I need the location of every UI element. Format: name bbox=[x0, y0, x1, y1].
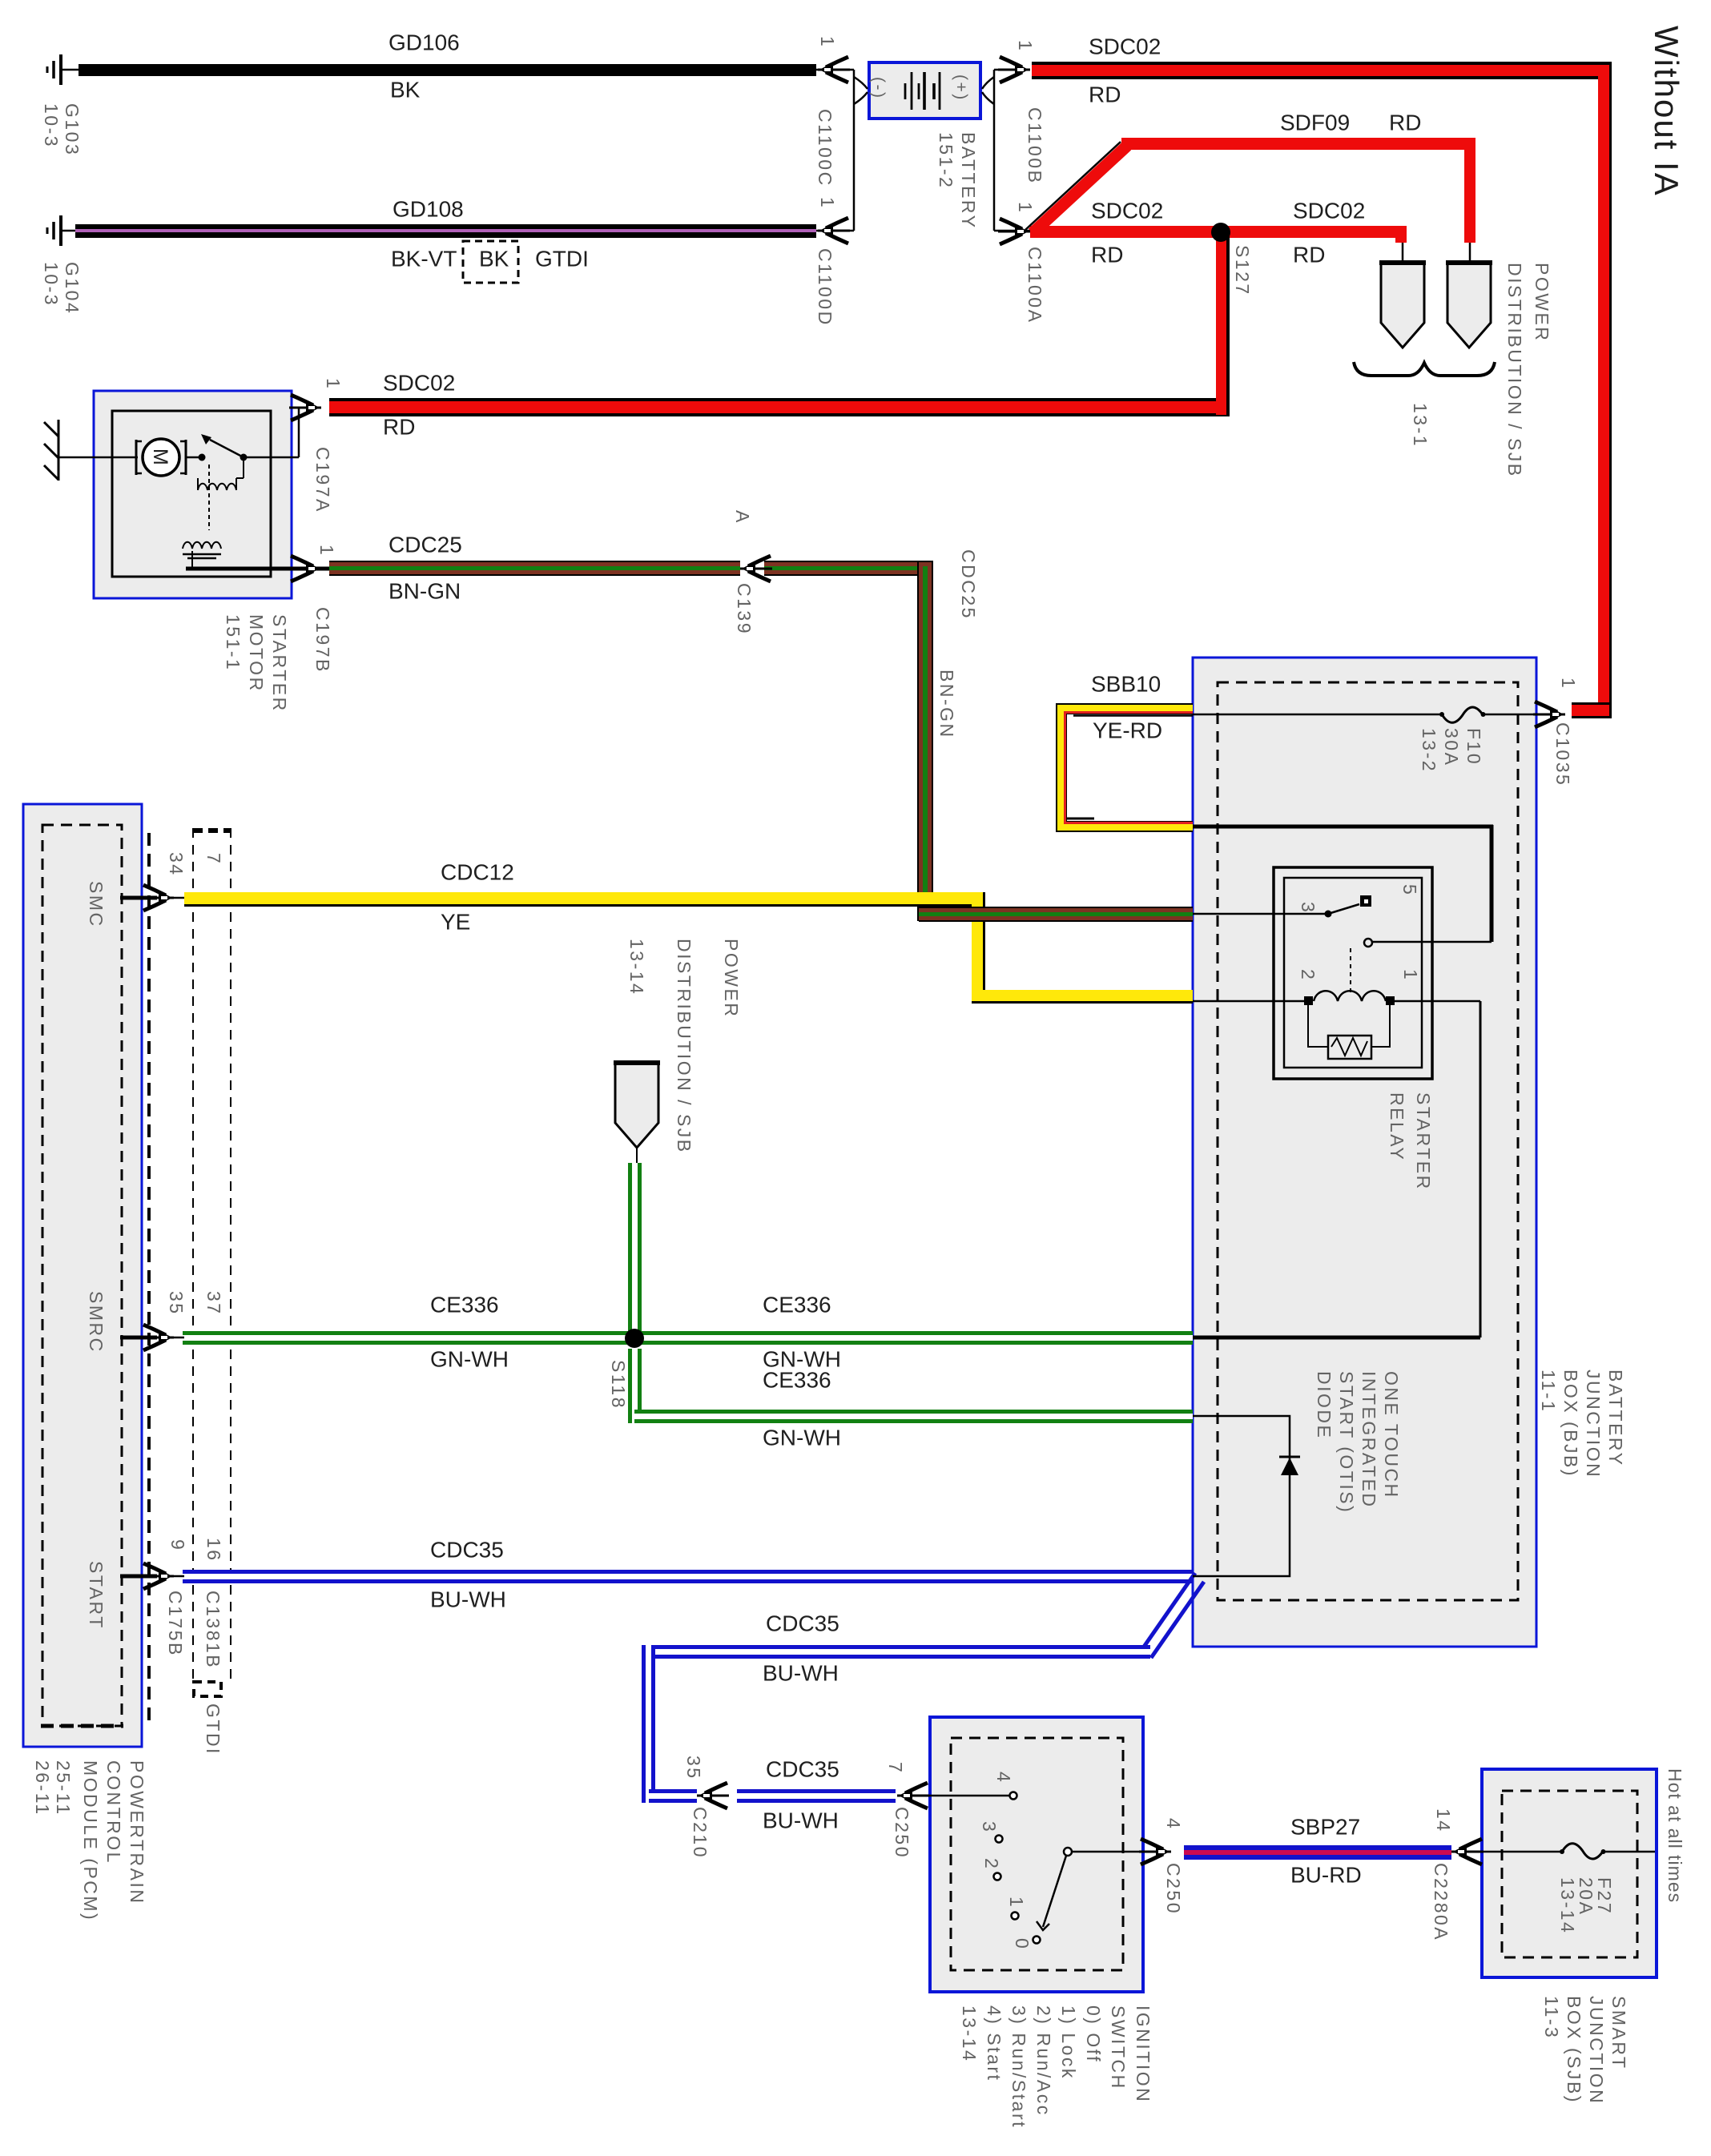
svg-text:CDC12: CDC12 bbox=[441, 859, 514, 884]
svg-text:1: 1 bbox=[1400, 969, 1421, 981]
svg-text:RD: RD bbox=[1091, 242, 1123, 267]
svg-text:CDC35: CDC35 bbox=[766, 1611, 839, 1635]
svg-text:BK: BK bbox=[479, 246, 509, 271]
svg-text:BK-VT: BK-VT bbox=[391, 246, 457, 271]
svg-text:BATTERY: BATTERY bbox=[958, 132, 979, 229]
svg-text:POWERTRAIN: POWERTRAIN bbox=[127, 1760, 147, 1905]
svg-text:2: 2 bbox=[1298, 969, 1318, 981]
svg-text:26-11: 26-11 bbox=[32, 1760, 53, 1816]
svg-text:1: 1 bbox=[1015, 40, 1036, 52]
svg-text:DISTRIBUTION / SJB: DISTRIBUTION / SJB bbox=[1504, 263, 1525, 478]
svg-text:C197B: C197B bbox=[312, 607, 333, 674]
svg-text:SBP27: SBP27 bbox=[1290, 1814, 1360, 1839]
svg-text:SBB10: SBB10 bbox=[1091, 671, 1161, 696]
svg-text:JUNCTION: JUNCTION bbox=[1583, 1370, 1604, 1478]
svg-text:CDC25: CDC25 bbox=[958, 549, 979, 620]
svg-text:16: 16 bbox=[203, 1538, 224, 1563]
svg-text:INTEGRATED: INTEGRATED bbox=[1359, 1371, 1379, 1509]
svg-text:BU-RD: BU-RD bbox=[1290, 1862, 1362, 1887]
svg-text:ONE TOUCH: ONE TOUCH bbox=[1381, 1371, 1402, 1499]
svg-text:3) Run/Start: 3) Run/Start bbox=[1008, 2005, 1029, 2129]
svg-text:BN-GN: BN-GN bbox=[936, 670, 957, 739]
svg-text:C197A: C197A bbox=[312, 447, 333, 513]
svg-text:POWER: POWER bbox=[721, 939, 742, 1018]
svg-text:4) Start: 4) Start bbox=[984, 2005, 1004, 2082]
svg-text:4: 4 bbox=[1163, 1818, 1184, 1830]
svg-text:DIODE: DIODE bbox=[1314, 1371, 1335, 1439]
svg-text:1: 1 bbox=[1558, 678, 1579, 690]
svg-text:11-1: 11-1 bbox=[1538, 1370, 1559, 1413]
svg-text:STARTER: STARTER bbox=[1413, 1092, 1434, 1191]
svg-text:A: A bbox=[732, 510, 753, 525]
svg-text:11-3: 11-3 bbox=[1541, 1996, 1562, 2039]
svg-text:C210: C210 bbox=[690, 1807, 711, 1859]
svg-text:CE336: CE336 bbox=[763, 1367, 831, 1392]
svg-text:G104: G104 bbox=[62, 262, 83, 315]
svg-text:RD: RD bbox=[1089, 82, 1121, 107]
svg-text:C1381B: C1381B bbox=[203, 1591, 223, 1669]
svg-text:13-14: 13-14 bbox=[1557, 1877, 1578, 1934]
svg-text:SMART: SMART bbox=[1608, 1996, 1629, 2070]
svg-text:1: 1 bbox=[1006, 1897, 1027, 1909]
svg-text:7: 7 bbox=[885, 1762, 906, 1774]
svg-text:MOTOR: MOTOR bbox=[246, 614, 267, 693]
svg-text:START (OTIS): START (OTIS) bbox=[1336, 1371, 1357, 1514]
svg-text:0) Off: 0) Off bbox=[1083, 2005, 1104, 2063]
svg-text:10-3: 10-3 bbox=[41, 262, 62, 307]
svg-text:S127: S127 bbox=[1232, 245, 1253, 296]
svg-text:151-1: 151-1 bbox=[223, 614, 244, 671]
svg-text:CONTROL: CONTROL bbox=[103, 1760, 124, 1864]
svg-text:BATTERY: BATTERY bbox=[1605, 1370, 1626, 1466]
svg-text:1: 1 bbox=[817, 197, 838, 209]
svg-text:C1100B: C1100B bbox=[1025, 107, 1045, 184]
svg-text:RD: RD bbox=[1389, 110, 1421, 135]
svg-text:CDC25: CDC25 bbox=[388, 532, 462, 557]
svg-text:C1100C: C1100C bbox=[815, 109, 835, 187]
svg-text:GTDI: GTDI bbox=[203, 1703, 223, 1756]
svg-text:SWITCH: SWITCH bbox=[1108, 2005, 1129, 2090]
svg-text:1) Lock: 1) Lock bbox=[1058, 2005, 1079, 2080]
svg-text:7: 7 bbox=[203, 853, 224, 865]
svg-text:YE-RD: YE-RD bbox=[1093, 718, 1162, 742]
svg-text:BOX (SJB): BOX (SJB) bbox=[1564, 1996, 1584, 2104]
svg-text:RD: RD bbox=[383, 414, 415, 439]
svg-text:M: M bbox=[149, 448, 171, 465]
svg-text:1: 1 bbox=[1015, 202, 1036, 214]
svg-text:2: 2 bbox=[981, 1858, 1002, 1870]
svg-text:(+): (+) bbox=[952, 74, 970, 102]
svg-text:GD106: GD106 bbox=[388, 30, 460, 54]
svg-text:YE: YE bbox=[441, 909, 470, 934]
svg-text:34: 34 bbox=[166, 852, 187, 877]
svg-text:35: 35 bbox=[683, 1756, 704, 1780]
svg-text:30A: 30A bbox=[1441, 728, 1462, 766]
svg-text:BU-WH: BU-WH bbox=[763, 1808, 839, 1832]
svg-text:G103: G103 bbox=[62, 103, 83, 156]
svg-text:SDC02: SDC02 bbox=[1091, 198, 1163, 223]
svg-text:2) Run/Acc: 2) Run/Acc bbox=[1033, 2005, 1054, 2117]
svg-text:BOX (BJB): BOX (BJB) bbox=[1560, 1370, 1581, 1478]
svg-text:GD108: GD108 bbox=[393, 196, 464, 221]
svg-text:13-2: 13-2 bbox=[1419, 728, 1439, 773]
svg-text:10-3: 10-3 bbox=[41, 103, 62, 148]
svg-text:CE336: CE336 bbox=[763, 1292, 831, 1317]
svg-text:C139: C139 bbox=[734, 583, 755, 635]
svg-text:13-14: 13-14 bbox=[626, 939, 647, 996]
svg-text:SMC: SMC bbox=[86, 881, 107, 928]
svg-text:DISTRIBUTION / SJB: DISTRIBUTION / SJB bbox=[674, 939, 694, 1154]
svg-text:(-): (-) bbox=[869, 77, 888, 99]
svg-text:9: 9 bbox=[167, 1539, 188, 1551]
svg-text:1: 1 bbox=[316, 545, 337, 557]
svg-text:13-1: 13-1 bbox=[1410, 403, 1431, 448]
svg-text:37: 37 bbox=[203, 1291, 224, 1316]
svg-text:BK: BK bbox=[390, 77, 421, 102]
svg-text:SDF09: SDF09 bbox=[1280, 110, 1350, 135]
svg-text:RELAY: RELAY bbox=[1387, 1092, 1407, 1161]
svg-text:S118: S118 bbox=[608, 1360, 629, 1410]
svg-text:C250: C250 bbox=[1163, 1863, 1184, 1915]
svg-text:CE336: CE336 bbox=[430, 1292, 499, 1317]
svg-text:POWER: POWER bbox=[1532, 263, 1552, 342]
svg-text:CDC35: CDC35 bbox=[766, 1756, 839, 1781]
svg-text:C250: C250 bbox=[892, 1807, 912, 1859]
svg-text:35: 35 bbox=[166, 1291, 187, 1316]
svg-text:GN-WH: GN-WH bbox=[430, 1346, 509, 1371]
svg-text:Hot at all times: Hot at all times bbox=[1665, 1768, 1685, 1903]
svg-text:RD: RD bbox=[1293, 242, 1325, 267]
svg-text:SDC02: SDC02 bbox=[383, 370, 455, 395]
svg-text:START: START bbox=[86, 1561, 107, 1630]
svg-text:0: 0 bbox=[1012, 1938, 1033, 1950]
svg-text:25-11: 25-11 bbox=[53, 1760, 74, 1816]
svg-text:151-2: 151-2 bbox=[936, 132, 956, 189]
svg-text:IGNITION: IGNITION bbox=[1133, 2005, 1153, 2103]
svg-text:3: 3 bbox=[1298, 902, 1318, 914]
svg-text:1: 1 bbox=[817, 36, 838, 48]
svg-text:JUNCTION: JUNCTION bbox=[1586, 1996, 1607, 2105]
svg-text:C2280A: C2280A bbox=[1431, 1863, 1451, 1941]
svg-text:MODULE (PCM): MODULE (PCM) bbox=[80, 1760, 101, 1921]
svg-text:C1035: C1035 bbox=[1552, 722, 1573, 786]
svg-text:1: 1 bbox=[323, 378, 344, 390]
svg-text:STARTER: STARTER bbox=[269, 614, 290, 713]
svg-text:BU-WH: BU-WH bbox=[430, 1587, 506, 1611]
svg-text:F10: F10 bbox=[1463, 728, 1484, 766]
svg-text:C1100A: C1100A bbox=[1025, 247, 1045, 324]
svg-text:SDC02: SDC02 bbox=[1293, 198, 1365, 223]
svg-text:BU-WH: BU-WH bbox=[763, 1660, 839, 1685]
svg-text:14: 14 bbox=[1433, 1808, 1454, 1833]
svg-text:Without IA: Without IA bbox=[1648, 26, 1685, 197]
svg-text:BN-GN: BN-GN bbox=[388, 578, 461, 603]
svg-text:3: 3 bbox=[979, 1821, 1000, 1833]
svg-text:C1100D: C1100D bbox=[815, 248, 835, 327]
svg-text:5: 5 bbox=[1399, 884, 1420, 896]
svg-text:CDC35: CDC35 bbox=[430, 1537, 504, 1562]
svg-text:13-14: 13-14 bbox=[959, 2005, 980, 2062]
svg-text:SMRC: SMRC bbox=[86, 1291, 107, 1354]
svg-text:GN-WH: GN-WH bbox=[763, 1425, 841, 1450]
svg-text:SDC02: SDC02 bbox=[1089, 34, 1161, 58]
svg-text:GTDI: GTDI bbox=[535, 246, 589, 271]
svg-text:C175B: C175B bbox=[165, 1591, 186, 1657]
svg-text:4: 4 bbox=[993, 1772, 1014, 1784]
